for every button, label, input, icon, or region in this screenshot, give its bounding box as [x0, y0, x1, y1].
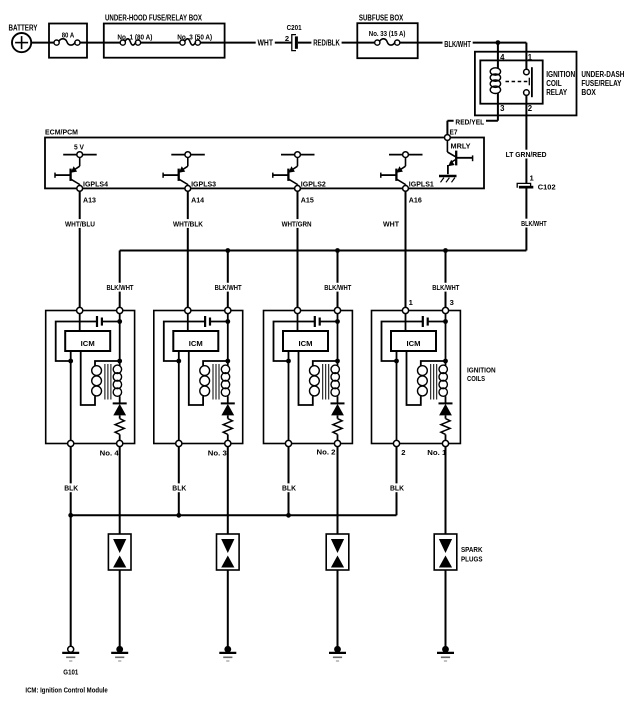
- svg-text:2: 2: [401, 448, 405, 457]
- svg-text:A16: A16: [409, 197, 422, 204]
- svg-text:BLK: BLK: [390, 484, 405, 493]
- svg-text:UNDER-DASH: UNDER-DASH: [581, 70, 624, 79]
- svg-text:2: 2: [528, 104, 533, 113]
- svg-text:BLK/WHT: BLK/WHT: [432, 283, 459, 292]
- svg-text:ICM: ICM: [189, 341, 203, 348]
- svg-text:WHT/BLU: WHT/BLU: [65, 219, 95, 228]
- svg-text:BOX: BOX: [581, 88, 596, 97]
- svg-text:No. 2: No. 2: [317, 449, 336, 456]
- svg-text:80 A: 80 A: [62, 32, 74, 39]
- svg-text:UNDER-HOOD FUSE/RELAY BOX: UNDER-HOOD FUSE/RELAY BOX: [105, 13, 203, 22]
- svg-text:5 V: 5 V: [74, 143, 84, 152]
- svg-text:IGPLS2: IGPLS2: [301, 182, 326, 189]
- svg-text:BLK: BLK: [172, 484, 187, 493]
- svg-text:3: 3: [500, 104, 505, 113]
- svg-text:ICM: ICM: [81, 341, 95, 348]
- svg-text:A13: A13: [83, 197, 96, 204]
- svg-text:G101: G101: [63, 669, 78, 676]
- svg-text:No. 3 (50 A): No. 3 (50 A): [177, 34, 212, 41]
- svg-text:PLUGS: PLUGS: [461, 557, 483, 564]
- svg-text:WHT: WHT: [258, 39, 274, 48]
- svg-text:LT GRN/RED: LT GRN/RED: [506, 150, 548, 159]
- svg-text:BLK/WHT: BLK/WHT: [215, 283, 242, 292]
- svg-text:IGPLS4: IGPLS4: [83, 182, 108, 189]
- svg-text:4: 4: [500, 53, 505, 62]
- svg-text:IGNITION: IGNITION: [546, 70, 575, 79]
- svg-text:C102: C102: [538, 182, 556, 191]
- svg-text:BLK/WHT: BLK/WHT: [324, 283, 351, 292]
- svg-text:1: 1: [528, 53, 533, 62]
- svg-text:No. 1: No. 1: [427, 450, 446, 457]
- svg-text:A14: A14: [191, 197, 204, 204]
- svg-text:RED/BLK: RED/BLK: [313, 39, 340, 48]
- svg-text:IGPLS1: IGPLS1: [409, 182, 434, 189]
- svg-text:COIL: COIL: [546, 79, 562, 88]
- svg-text:No. 4: No. 4: [100, 450, 119, 457]
- svg-text:SUBFUSE BOX: SUBFUSE BOX: [359, 13, 404, 22]
- svg-text:ECM/PCM: ECM/PCM: [45, 127, 78, 136]
- svg-text:ICM: Ignition Control Module: ICM: Ignition Control Module: [25, 685, 107, 694]
- svg-text:RED/YEL: RED/YEL: [455, 118, 484, 127]
- svg-text:ICM: ICM: [407, 341, 421, 348]
- svg-text:A15: A15: [301, 197, 314, 204]
- svg-text:RELAY: RELAY: [546, 88, 568, 97]
- svg-text:3: 3: [450, 298, 454, 307]
- svg-text:WHT: WHT: [383, 219, 399, 228]
- svg-text:C201: C201: [287, 25, 302, 32]
- svg-text:BLK/WHT: BLK/WHT: [444, 40, 471, 49]
- svg-text:ICM: ICM: [299, 341, 313, 348]
- svg-text:SPARK: SPARK: [461, 547, 483, 554]
- svg-text:No. 33 (15 A): No. 33 (15 A): [369, 31, 406, 38]
- svg-text:BLK/WHT: BLK/WHT: [107, 283, 134, 292]
- svg-text:BLK/WHT: BLK/WHT: [521, 219, 547, 228]
- svg-text:No. 1 (80 A): No. 1 (80 A): [117, 34, 152, 41]
- svg-text:BATTERY: BATTERY: [9, 24, 39, 33]
- svg-text:IGPLS3: IGPLS3: [191, 182, 216, 189]
- svg-text:MRLY: MRLY: [451, 142, 471, 151]
- svg-text:BLK: BLK: [64, 484, 79, 493]
- svg-text:COILS: COILS: [467, 376, 485, 383]
- svg-text:BLK: BLK: [282, 484, 297, 493]
- svg-text:FUSE/RELAY: FUSE/RELAY: [581, 79, 622, 88]
- svg-text:E7: E7: [450, 129, 458, 136]
- svg-text:WHT/GRN: WHT/GRN: [282, 219, 312, 228]
- svg-text:WHT/BLK: WHT/BLK: [173, 219, 204, 228]
- svg-text:IGNITION: IGNITION: [467, 367, 496, 374]
- svg-text:2: 2: [285, 34, 289, 43]
- svg-text:No. 3: No. 3: [208, 450, 227, 457]
